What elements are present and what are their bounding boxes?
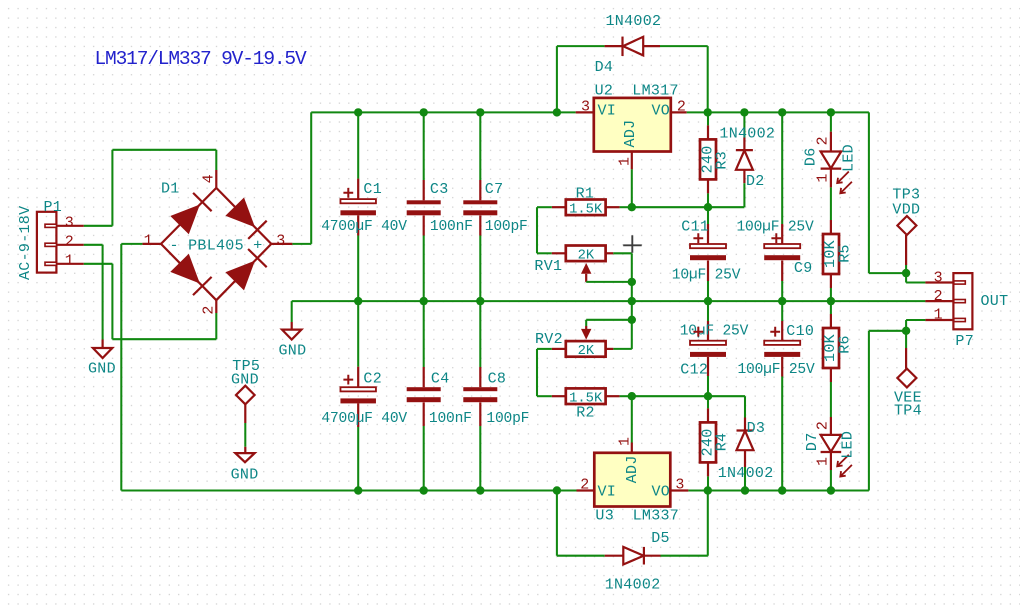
capacitor C10 plus	[770, 327, 780, 337]
svg-text:U2: U2	[595, 82, 614, 99]
svg-text:100µF 25V: 100µF 25V	[738, 362, 815, 378]
svg-text:1: 1	[815, 173, 832, 182]
wire C11 top	[707, 207, 709, 224]
resistor R6 value	[822, 334, 839, 362]
regulator U2 value	[632, 82, 679, 99]
svg-text:C12: C12	[680, 361, 708, 378]
svg-text:1: 1	[616, 157, 633, 166]
svg-text:3: 3	[65, 215, 74, 232]
test point TP3 reference	[892, 186, 920, 203]
wire D2 bottom	[743, 183, 745, 207]
junction bottom rail x480.3	[476, 486, 484, 494]
capacitor C3 reference	[430, 181, 449, 198]
wire ADJ row right	[632, 206, 745, 208]
LED D6	[821, 132, 842, 188]
svg-text:1N4002: 1N4002	[718, 465, 774, 482]
diode D2 value	[719, 125, 775, 142]
svg-text:3: 3	[581, 99, 590, 116]
ground label P1	[88, 361, 116, 378]
wire D3 bottom	[744, 467, 746, 491]
capacitor C8	[463, 367, 497, 426]
diode D3 reference	[747, 420, 766, 437]
svg-text:3: 3	[934, 269, 943, 286]
capacitor C12	[690, 321, 726, 376]
connector P1 pin 3 number	[65, 215, 74, 232]
svg-text:10µF 25V: 10µF 25V	[672, 267, 741, 283]
svg-text:D5: D5	[651, 530, 670, 547]
regulator U3 pin 2 number	[580, 477, 589, 494]
junction ADJ row at x631	[628, 203, 636, 211]
resistor R6 reference	[836, 335, 853, 354]
svg-text:100pF: 100pF	[485, 219, 528, 235]
test point TP4 net VEE	[894, 390, 922, 407]
LED D7 value	[839, 431, 856, 459]
svg-text:R2: R2	[576, 405, 595, 422]
wire C4 top	[423, 301, 425, 367]
wire TP4 from junction	[905, 331, 907, 348]
bridge D1 stub node2	[215, 300, 217, 313]
regulator U3 pin 3 number	[675, 477, 684, 494]
junction top rail x556.9	[553, 108, 561, 116]
wire RV1 right	[613, 253, 632, 282]
regulator U2 pin VI	[576, 111, 594, 113]
LED D6 arrows	[837, 172, 852, 194]
resistor R4	[700, 408, 716, 476]
LED D6 value	[841, 144, 858, 172]
test point TP5 net GND	[231, 372, 259, 389]
wire RV2 right	[613, 320, 632, 349]
test point TP5 leads	[244, 404, 246, 453]
test point TP3 lead	[905, 235, 907, 265]
svg-text:2: 2	[934, 288, 943, 305]
wire ADJ row bottom	[632, 395, 745, 397]
wire C9 top	[781, 112, 783, 224]
capacitor C2	[340, 367, 376, 427]
wire C1 top	[357, 112, 359, 178]
svg-text:2: 2	[65, 234, 74, 251]
bridge D1 diode 1-4	[170, 193, 211, 234]
connector P7 pin 1 number	[934, 307, 943, 324]
wire C7 bottom	[479, 236, 481, 302]
svg-text:R5: R5	[836, 244, 853, 263]
wire D6 to R5	[830, 187, 832, 220]
diode D4 value	[606, 13, 662, 30]
junction mid rail x480.3	[476, 297, 484, 305]
svg-text:D1: D1	[161, 181, 180, 198]
title text	[95, 48, 307, 70]
connector P1 pin 3 slot	[45, 224, 84, 227]
test point TP5 diamond	[236, 386, 255, 405]
connector P7 reference	[955, 333, 974, 350]
svg-text:100µF 25V: 100µF 25V	[737, 220, 814, 236]
diode D2 reference	[746, 173, 765, 190]
wire U2 ADJ down	[631, 169, 633, 207]
svg-text:2K: 2K	[578, 249, 595, 264]
svg-text:RV1: RV1	[534, 258, 562, 275]
junction mid rail x782.2	[778, 297, 786, 305]
regulator U3 pin name VI	[598, 483, 617, 500]
capacitor C10	[764, 321, 800, 377]
capacitor C4 reference	[431, 371, 450, 388]
wire C12 bottom	[707, 376, 709, 396]
svg-text:VI: VI	[598, 483, 617, 500]
potentiometer RV2 value	[578, 344, 595, 359]
wire P1 pin3 to bridge node4	[84, 150, 217, 226]
wire bottom rail right	[688, 489, 869, 491]
potentiometer RV1 reference	[534, 258, 562, 275]
wire R1 right	[620, 206, 632, 208]
wire R2 right	[620, 395, 632, 397]
wire C12 top	[707, 301, 709, 321]
bridge D1 diode 1-2	[170, 254, 211, 295]
junction top rail x423.7	[420, 108, 428, 116]
wire D5 right	[661, 491, 708, 556]
junction VEE at TP4	[902, 327, 910, 335]
diode D2	[736, 138, 753, 184]
regulator U3 pin 1 number	[617, 437, 634, 446]
capacitor C4 value	[429, 411, 472, 427]
svg-text:1: 1	[934, 307, 943, 324]
junction top rail x480.3	[476, 108, 484, 116]
svg-text:VO: VO	[652, 483, 671, 500]
bridge D1 pin 2 number	[200, 305, 217, 314]
svg-text:R6: R6	[836, 335, 853, 354]
diode D5	[605, 547, 661, 565]
wire C10 top	[781, 301, 783, 321]
regulator U2 pin ADJ	[631, 152, 633, 170]
test point TP4 reference	[894, 402, 922, 419]
capacitor C1 reference	[363, 181, 382, 198]
svg-text:ADJ: ADJ	[622, 120, 639, 148]
wire mid rail ground drop	[291, 301, 293, 322]
junction ADJ row at x708	[704, 203, 712, 211]
diode D3 value	[718, 465, 774, 482]
LED D7 reference	[804, 432, 821, 451]
bridge D1 edge 4-3	[216, 188, 271, 244]
svg-text:1: 1	[815, 457, 832, 466]
capacitor C9	[764, 224, 800, 281]
connector P1 reference	[44, 199, 63, 216]
connector P1 pin 1 slot	[45, 262, 84, 265]
capacitor C12 value	[680, 324, 749, 340]
wire bridge node3 to top rail	[292, 112, 311, 244]
resistor R3 value	[699, 145, 716, 173]
net label AC-9-18V	[17, 206, 34, 280]
resistor R5 value	[822, 240, 839, 268]
wire R3 bottom	[707, 193, 709, 207]
wire RV2 left to R2	[537, 349, 552, 396]
wire R1 left to RV1	[537, 207, 552, 253]
capacitor C9 reference	[794, 260, 813, 277]
svg-text:2K: 2K	[578, 344, 595, 359]
svg-text:VI: VI	[598, 103, 617, 120]
wire RV1 wiper to rail	[586, 282, 632, 301]
regulator U3 pin ADJ	[631, 443, 633, 453]
junction C9 top at VO rail	[778, 108, 786, 116]
connector P7 pin 2 number	[934, 288, 943, 305]
connector P7 body	[953, 273, 972, 329]
bridge D1 edge 2-3	[216, 244, 271, 300]
ground label TP5	[231, 466, 259, 483]
capacitor C8 value	[486, 411, 529, 427]
wire C4 bottom	[423, 426, 425, 491]
bridge D1 stub node1	[142, 243, 161, 245]
wire D4 right	[660, 46, 708, 112]
svg-text:LM317: LM317	[632, 82, 679, 99]
wire VO rail	[687, 111, 869, 113]
svg-text:C10: C10	[786, 323, 814, 340]
ground symbol TP5	[235, 453, 254, 462]
svg-text:3: 3	[675, 477, 684, 494]
junction bottom rail x358.2	[354, 486, 362, 494]
junction bottom rail x423.7	[420, 486, 428, 494]
wire D4 left	[557, 46, 605, 112]
capacitor C2 plus	[343, 375, 353, 385]
resistor R5	[823, 220, 839, 288]
svg-text:VO: VO	[652, 103, 671, 120]
potentiometer RV2	[552, 341, 614, 357]
svg-text:C1: C1	[363, 181, 382, 198]
test point TP3 net VDD	[892, 202, 920, 219]
svg-text:100nF: 100nF	[429, 411, 472, 427]
capacitor C9 value	[737, 220, 814, 236]
svg-text:ADJ: ADJ	[624, 455, 641, 483]
wire TP5 to ground	[244, 423, 246, 447]
wire C3 top	[423, 112, 425, 180]
svg-text:1: 1	[65, 253, 74, 270]
LED D7 pin 2 number	[815, 421, 832, 430]
wire mid rail to RV2	[631, 301, 633, 320]
svg-text:P7: P7	[955, 333, 974, 350]
potentiometer RV2 reference	[535, 331, 563, 348]
connector P1 pin 2 number	[65, 234, 74, 251]
junction ADJ bottom x708	[704, 392, 712, 400]
capacitor C2 reference	[363, 371, 382, 388]
junction ADJ bottom x631	[628, 392, 636, 400]
svg-text:2: 2	[200, 305, 217, 314]
regulator U2 pin name VI	[598, 103, 617, 120]
wire C3 bottom	[423, 236, 425, 302]
diode D3	[737, 418, 754, 468]
LED D6 pin 2 number	[815, 136, 832, 145]
wire R5 bottom	[830, 288, 832, 301]
wire D3 top	[744, 396, 746, 417]
svg-text:1N4002: 1N4002	[606, 13, 662, 30]
svg-text:4700µF 40V: 4700µF 40V	[321, 219, 407, 235]
ground label mid rail	[279, 342, 307, 359]
svg-text:R4: R4	[714, 433, 731, 452]
capacitor C1 value	[321, 219, 407, 235]
resistor R2 value	[569, 391, 603, 406]
test point TP4 lead	[905, 348, 907, 369]
regulator U3 value	[633, 508, 680, 525]
svg-text:R1: R1	[576, 186, 595, 203]
LED D7 pin 1 number	[815, 457, 832, 466]
svg-text:C11: C11	[681, 219, 709, 236]
capacitor C7	[463, 180, 497, 236]
junction mid rail x423.7	[420, 297, 428, 305]
wire VEE up to P7 pin1	[869, 320, 926, 491]
regulator U2 pin name VO	[652, 103, 671, 120]
junction bottom rail x830.9	[827, 486, 835, 494]
svg-text:LED: LED	[839, 431, 856, 459]
capacitor C11	[690, 224, 726, 281]
svg-text:D6: D6	[802, 147, 819, 166]
connector P1 body	[37, 212, 57, 273]
svg-text:RV2: RV2	[535, 331, 563, 348]
capacitor C8 reference	[488, 371, 507, 388]
wire C2 top	[357, 301, 359, 367]
LED D7	[821, 417, 842, 470]
svg-text:OUT: OUT	[981, 293, 1009, 310]
svg-text:C8: C8	[488, 371, 507, 388]
capacitor C11 value	[672, 267, 741, 283]
bridge D1 pin 1 number	[144, 232, 153, 249]
ground symbol mid rail	[282, 322, 301, 340]
junction mid rail x830.9	[827, 297, 835, 305]
junction bottom rail x782.2	[778, 486, 786, 494]
resistor R6	[823, 314, 839, 382]
bridge D1 edge 1-2	[161, 244, 216, 300]
bridge D1 diode 4-3	[225, 198, 266, 239]
wire VDD down to P7 pin3	[869, 112, 926, 282]
wire P1 pin2 to ground	[84, 245, 103, 340]
svg-text:TP4: TP4	[894, 402, 922, 419]
wire D5 left	[557, 491, 605, 556]
svg-text:D4: D4	[595, 59, 614, 76]
regulator U3 pin name VO	[652, 483, 671, 500]
regulator U2 pin 3 number	[581, 99, 590, 116]
resistor R1 reference	[576, 186, 595, 203]
junction RV1 wiper	[628, 278, 636, 286]
LED D7 arrows	[837, 455, 852, 477]
svg-text:- PBL405 +: - PBL405 +	[170, 238, 263, 255]
connector P7 net OUT	[981, 293, 1009, 310]
regulator U2 pin VO	[671, 111, 687, 113]
svg-text:1: 1	[144, 232, 153, 249]
regulator U2 reference	[595, 82, 614, 99]
junction D4 right at VO rail	[704, 108, 712, 116]
potentiometer RV1 value	[578, 249, 595, 264]
svg-text:C3: C3	[430, 181, 449, 198]
svg-text:GND: GND	[88, 361, 116, 378]
resistor R1 value	[569, 202, 603, 217]
resistor R2 reference	[576, 405, 595, 422]
wire C9 bottom	[781, 281, 783, 301]
wire R6 top	[830, 301, 832, 314]
diode D5 reference	[651, 530, 670, 547]
svg-text:1: 1	[617, 437, 634, 446]
svg-text:U3: U3	[595, 508, 614, 525]
wire D6 top	[830, 112, 832, 131]
svg-text:GND: GND	[279, 342, 307, 359]
capacitor C11 plus	[693, 233, 703, 243]
svg-text:100pF: 100pF	[486, 411, 529, 427]
capacitor C10 value	[738, 362, 815, 378]
diode D4 reference	[595, 59, 614, 76]
wire C10 bottom	[781, 377, 783, 491]
svg-text:1.5K: 1.5K	[569, 202, 603, 217]
svg-text:4700µF 40V: 4700µF 40V	[321, 411, 407, 427]
svg-text:AC-9-18V: AC-9-18V	[17, 206, 34, 280]
resistor R3 reference	[714, 151, 731, 170]
svg-text:P1: P1	[44, 199, 63, 216]
wire RV2 wiper from rail	[586, 320, 632, 326]
svg-text:100nF: 100nF	[430, 219, 473, 235]
wire R6 bottom	[830, 382, 832, 417]
LED D6 pin 1 number	[815, 173, 832, 182]
capacitor C7 reference	[485, 181, 504, 198]
ground symbol P1	[93, 340, 112, 359]
regulator U3 reference	[595, 508, 614, 525]
wire C1 bottom	[357, 236, 359, 302]
wire mid ground rail	[292, 300, 926, 302]
bridge D1 edge 1-4	[161, 188, 216, 244]
svg-text:D3: D3	[747, 420, 766, 437]
resistor R5 reference	[836, 244, 853, 263]
connector P1 pin 2 slot	[45, 243, 84, 246]
capacitor C10 reference	[786, 323, 814, 340]
capacitor C9 plus	[771, 233, 781, 243]
svg-text:2: 2	[580, 477, 589, 494]
potentiometer RV1	[552, 246, 614, 262]
svg-text:R3: R3	[714, 151, 731, 170]
svg-text:2: 2	[815, 421, 832, 430]
wire R3 top	[707, 112, 709, 125]
junction RV2 wiper	[628, 316, 636, 324]
regulator U3 body	[594, 453, 670, 507]
wire D7 bottom	[830, 470, 832, 491]
diode D4	[605, 37, 660, 56]
svg-text:2: 2	[815, 136, 832, 145]
wire D2 top	[743, 112, 745, 137]
regulator U2 pin 1 number	[616, 157, 633, 166]
wire C2 bottom	[357, 427, 359, 491]
junction mid rail x708.0	[704, 297, 712, 305]
regulator U3 pin VI	[577, 489, 595, 491]
wire bottom negative rail	[121, 489, 576, 491]
svg-text:C4: C4	[431, 371, 450, 388]
resistor R3	[700, 125, 716, 193]
test point TP5 reference	[232, 358, 260, 375]
resistor R4 reference	[714, 433, 731, 452]
bridge D1 value	[170, 238, 263, 255]
svg-text:C7: C7	[485, 181, 504, 198]
resistor R2	[552, 388, 620, 404]
capacitor C1 plus	[343, 188, 353, 198]
svg-text:1N4002: 1N4002	[719, 125, 775, 142]
resistor R4 value	[699, 428, 716, 456]
capacitor C12 reference	[680, 361, 708, 378]
capacitor C3	[407, 180, 441, 236]
diode D5 value	[605, 576, 661, 593]
regulator U2 body	[594, 98, 671, 152]
potentiometer RV1 wiper	[581, 263, 591, 282]
bridge D1 pin 4 number	[200, 174, 217, 183]
cursor crosshair	[623, 235, 642, 253]
connector P7 pin 2 slot	[925, 300, 965, 303]
regulator U2 pin name ADJ	[622, 120, 639, 148]
wire C11 bottom	[707, 281, 709, 301]
junction top rail x358.2	[354, 108, 362, 116]
bridge D1 diode 2-3	[225, 249, 266, 290]
capacitor C1	[340, 179, 376, 236]
junction D2 top at VO rail	[740, 108, 748, 116]
capacitor C12 plus	[693, 327, 703, 337]
wire U3 ADJ up	[631, 396, 633, 442]
svg-text:2: 2	[677, 99, 686, 116]
junction bottom rail x707.8	[704, 486, 712, 494]
